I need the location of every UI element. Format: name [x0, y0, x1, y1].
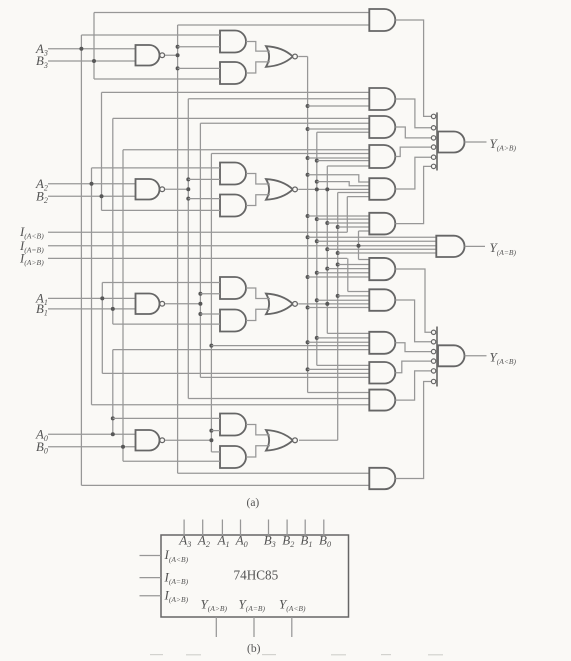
svg-text:I(A>B): I(A>B) [164, 587, 189, 604]
wire AND bit0 lower output to NOR [246, 446, 270, 457]
AND gate bit1 lower [220, 310, 246, 332]
wire B1 to gate G2 [113, 117, 370, 119]
junction A0 branch [111, 416, 115, 420]
wire NOR1 output to gate G7 [298, 303, 369, 305]
wire n3 to top AND gate [178, 24, 370, 26]
AND gate G7 [369, 289, 395, 311]
wire n1 to gate G9 [200, 376, 369, 378]
AND gate bit0 lower [220, 446, 246, 468]
svg-text:Y(A>B): Y(A>B) [490, 136, 517, 153]
wire E2 to gate G2 [317, 131, 370, 133]
wire AND bit2 lower output to NOR [246, 195, 270, 206]
wire E3 to gate G10 [308, 392, 370, 394]
junction E0 to G5 [336, 225, 340, 229]
wire E2 to gate G7 [317, 299, 370, 301]
wire G8 output to Y(A<B) bubble 3 [395, 343, 431, 352]
wire A2 to gate G10 [92, 404, 370, 406]
junction E1 output [325, 302, 329, 306]
74HC85 package outline [161, 535, 349, 617]
AND gate G1 [369, 88, 395, 110]
junction E1 tap on NOR2 output [325, 187, 329, 191]
caption (b) [247, 643, 261, 655]
wire E3 to gate G1 [308, 105, 370, 107]
wire input A2 [48, 183, 136, 185]
Y(A>B) inverting input bubble 4 [431, 145, 435, 149]
junction E3 to G8 [306, 340, 310, 344]
pin label B1 [300, 532, 312, 549]
input bar of Y(A<B) gate [436, 327, 438, 387]
wire AND bit1 upper output to NOR [246, 288, 270, 299]
junction n2 output [186, 187, 190, 191]
pin B3 stub [268, 520, 270, 536]
label cascade input I(A>B) [19, 251, 44, 267]
NAND gate bit1 [136, 294, 165, 315]
label cascade input I(A=B) [19, 239, 44, 255]
Y(A>B) inverting input bubble 2 [431, 126, 435, 130]
wire vertical net I(A=B) [358, 231, 360, 260]
wire A0 to bit0 upper AND [113, 417, 220, 419]
junction n1 [198, 312, 202, 316]
NOR gate bit0 (equality) [266, 430, 297, 451]
wire E3 to gate G9 [308, 368, 370, 370]
pin I(A=B) stub [140, 577, 162, 579]
wire vertical net NAND3 output (n3) [177, 25, 179, 473]
label input B0 [36, 440, 48, 456]
junction E2 to A=B gate [315, 239, 319, 243]
wire input B3 [48, 60, 136, 62]
pin I(A<B) stub [140, 555, 162, 557]
wire vertical net B2 [101, 92, 103, 210]
wire E1 to gate G6 [327, 268, 369, 270]
label input B3 [36, 54, 48, 70]
AND gate G6 [369, 258, 395, 280]
junction E3 to G7 [306, 306, 310, 310]
wire E2 to gate G8 [317, 337, 370, 339]
label input A3 [35, 42, 48, 58]
NOR gate bit1 (equality) [266, 294, 297, 315]
pin B1 stub [304, 520, 306, 536]
pin Y(A=B) stub [253, 617, 255, 637]
wire AND bit0 upper output to NOR [246, 425, 270, 435]
wire E3 to A=B output gate [308, 236, 436, 238]
junction E2 to G6 [315, 271, 319, 275]
wire I(A<B) to gate G4 [347, 196, 369, 198]
NAND gate bit2 [136, 179, 165, 200]
label input A2 [35, 177, 48, 193]
AND gate G8 [369, 332, 395, 354]
wire NOR3 output [298, 56, 307, 58]
junction E3 to A=B gate [306, 235, 310, 239]
AND gate bit1 upper [220, 277, 246, 299]
svg-text:Y(A=B): Y(A=B) [490, 240, 517, 257]
wire A0 to gate G8 [113, 349, 370, 351]
label cascade input I(A<B) [19, 225, 44, 241]
AND gate G4 [369, 178, 395, 200]
wire vertical net A1 [101, 283, 103, 374]
label 74HC85 [234, 568, 279, 583]
NAND gate bit3 [136, 45, 165, 66]
pin label B0 [319, 532, 331, 549]
wire AND bit3 lower output to NOR [246, 62, 270, 73]
wire E2 to gate G9 [317, 364, 370, 366]
wire G3 output to Y(A>B) bubble 4 [395, 147, 431, 156]
svg-text:I(A=B): I(A=B) [164, 569, 189, 586]
wire E2 to gate G3 [317, 160, 370, 162]
pin label B2 [282, 532, 294, 549]
wire B3 to bit3 lower AND [94, 78, 220, 80]
label Y(A=B) [490, 240, 517, 257]
wire Y(A>B) output [465, 141, 487, 143]
wire E3 to gate G5 [308, 215, 370, 217]
junction E3 to G1 [306, 104, 310, 108]
wire bottom AND output to Y(A<B) bubble 6 [395, 382, 431, 479]
pin label Y(A<B) [279, 597, 306, 614]
svg-text:I(A<B): I(A<B) [164, 547, 189, 564]
wire vertical net B3 [93, 13, 95, 80]
svg-text:Y(A<B): Y(A<B) [490, 349, 517, 366]
wire G5 output to Y(A>B) bubble 6 [395, 166, 431, 223]
label input B2 [36, 190, 48, 206]
junction E0 to G6 [336, 263, 340, 267]
Y(A<B) inverting input bubble 6 [431, 379, 435, 383]
junction n2 [186, 197, 190, 201]
wire top AND output to Y(A>B) bubble 1 [395, 20, 431, 116]
junction n3 [176, 45, 180, 49]
wire E1 to gate G8 [327, 332, 369, 334]
wire E3 to gate G2 [308, 128, 370, 130]
wire n3 to bit3 lower AND [178, 67, 220, 69]
wire n2 to gate G10 [188, 398, 369, 400]
wire NOR2 output to gate G4 [298, 188, 369, 190]
junction B1 [111, 307, 115, 311]
pin label I(A>B) [164, 587, 189, 604]
wire E3 to gate G7 [308, 307, 370, 309]
pin label A3 [178, 532, 191, 549]
NAND gate bit0 [136, 430, 165, 451]
wire NAND1 output [165, 303, 201, 305]
output AND gate Y(A<B) [438, 345, 465, 366]
wire input B1 [48, 308, 136, 310]
pin label A0 [235, 532, 248, 549]
wire NOR0 output [299, 439, 338, 441]
junction n1 output [198, 302, 202, 306]
junction n0 [209, 344, 213, 348]
wire n1 to gate G2 [200, 122, 369, 124]
label Y(A>B) [490, 136, 517, 153]
junction E0 to G7 [336, 294, 340, 298]
wire input A3 [48, 48, 136, 50]
wire n0 to bit0 upper AND [211, 430, 220, 432]
label input A0 [35, 427, 48, 443]
pin label I(A=B) [164, 569, 189, 586]
label Y(A<B) [490, 349, 517, 366]
wire n1 to bit1 lower AND [200, 313, 220, 315]
junction E3 to G2 [306, 127, 310, 131]
wire vertical net A0 [112, 350, 114, 435]
wire n3 to bottom AND gate [178, 472, 370, 474]
svg-text:(b): (b) [247, 643, 261, 655]
wire n0 to gate G8 [211, 345, 369, 347]
pin label I(A<B) [164, 547, 189, 564]
output AND gate Y(A>B) [438, 132, 465, 153]
wire n2 to gate G1 [188, 98, 369, 100]
svg-text:74HC85: 74HC85 [234, 568, 279, 583]
Y(A<B) inverting input bubble 3 [431, 349, 435, 353]
junction E2 to G4 [315, 180, 319, 184]
Y(A<B) inverting input bubble 4 [431, 359, 435, 363]
AND gate G3 [369, 145, 395, 168]
junction E3 to G6 [306, 275, 310, 279]
wire input B0 [48, 446, 136, 448]
pin A3 stub [183, 520, 185, 536]
wire E2 to gate G4 [317, 182, 374, 186]
junction n2 [186, 177, 190, 181]
junction n3 [176, 66, 180, 70]
wire B2 to gate G1 [102, 91, 370, 93]
junction E2 to G8 [315, 336, 319, 340]
wire E1 to gate G5 [327, 222, 369, 224]
output AND gate Y(A=B) [436, 236, 464, 257]
pin Y(A<B) stub [291, 617, 293, 637]
pin B0 stub [323, 520, 325, 536]
junction A3 [79, 47, 83, 51]
pin A2 stub [202, 520, 204, 536]
Y(A<B) inverting input bubble 1 [431, 330, 435, 334]
wire n2 to bit2 lower AND [188, 198, 220, 200]
AND gate G5 [369, 213, 395, 235]
pin Y(A>B) stub [215, 617, 217, 637]
junction A1 [100, 296, 104, 300]
wire vertical net A3 [80, 35, 82, 485]
wire n3 to bit3 upper AND [178, 46, 220, 48]
AND gate G2 [369, 116, 395, 138]
caption (a) [247, 497, 260, 509]
junction E3 to G3 [306, 156, 310, 160]
pin A0 stub [240, 520, 242, 536]
NOR gate bit2 (equality) [266, 179, 297, 200]
svg-text:Y(A<B): Y(A<B) [279, 597, 306, 614]
wire cascade I(A<B) [48, 231, 347, 233]
wire vertical net E2 equality [316, 132, 318, 365]
wire n0 to bit0 lower AND [211, 451, 220, 453]
pin B2 stub [286, 520, 288, 536]
wire n1 to bit1 upper AND [200, 293, 220, 295]
Y(A<B) inverting input bubble 2 [431, 340, 435, 344]
junction E1 to G5 [325, 221, 329, 225]
Y(A>B) inverting input bubble 6 [431, 164, 435, 168]
AND gate bit0 upper [220, 414, 246, 436]
wire I(A>B) to gate G7 [348, 291, 370, 293]
pin label Y(A=B) [239, 597, 266, 614]
junction I(A=B) [357, 244, 361, 248]
wire E0 to gate G4 [338, 192, 370, 194]
wire n2 to bit2 upper AND [188, 178, 220, 180]
wire input A1 [48, 297, 136, 299]
wire G10 output to Y(A<B) bubble 5 [395, 371, 431, 400]
pin A1 stub [221, 520, 223, 536]
wire vertical net E3 equality [307, 57, 309, 393]
junction E0 to A=B gate [336, 251, 340, 255]
wire E3 to gate G4 [308, 175, 374, 182]
junction E3 to G5 [306, 214, 310, 218]
AND gate G9 [369, 362, 395, 384]
junction E3 to G4 [306, 173, 310, 177]
wire vertical net B0 [122, 150, 124, 462]
wire B0 to bit0 lower AND [123, 460, 220, 462]
junction E2 output [315, 187, 319, 191]
wire B3 to top AND gate [94, 12, 369, 14]
AND gate bit3 lower [220, 62, 246, 84]
Y(A<B) inverting input bubble 5 [431, 369, 435, 373]
junction n0 [209, 429, 213, 433]
wire E0 to gate G5 [338, 226, 370, 228]
wire NAND0 output [165, 439, 212, 441]
junction E2 to G5 [315, 217, 319, 221]
pin label A2 [197, 532, 210, 549]
faint scan artifact marks at bottom edge [150, 654, 443, 656]
input bar of Y(A>B) gate [436, 112, 438, 170]
Y(A>B) inverting input bubble 1 [431, 114, 435, 118]
wire vertical net I(A>B) [347, 258, 349, 291]
wire A1 to gate G9 [102, 372, 369, 374]
wire G1 output to Y(A>B) bubble 2 [395, 99, 431, 128]
wire E3 to gate G6 [308, 276, 370, 278]
AND gate bit2 upper [220, 163, 246, 185]
wire AND bit3 upper output to NOR [246, 42, 270, 52]
wire n0 to gate G3 [211, 153, 369, 155]
junction B3 [92, 59, 96, 63]
label input A1 [35, 292, 48, 308]
AND gate G10 [369, 390, 395, 411]
junction A2 [90, 182, 94, 186]
wire input B2 [48, 195, 136, 197]
Y(A>B) inverting input bubble 5 [431, 155, 435, 159]
wire E2 to gate G5 [317, 218, 370, 220]
wire NAND2 output [165, 188, 188, 190]
wire NAND3 output [165, 54, 178, 56]
label input B1 [36, 302, 48, 318]
pin label A1 [217, 532, 230, 549]
junction n1 [198, 292, 202, 296]
bottom AND gate (A3·B3') [369, 468, 395, 489]
wire A3 to bottom AND gate [81, 484, 369, 486]
wire B1 to bit1 lower AND [113, 323, 220, 325]
junction n0 output [209, 438, 213, 442]
junction E1 to G6 [325, 267, 329, 271]
wire E1 to A=B output gate [327, 248, 436, 250]
wire B2 to bit2 lower AND [102, 209, 221, 211]
wire A3 to bit3 upper AND [81, 34, 220, 36]
wire vertical net E1 equality [326, 166, 328, 333]
wire A2 to bit2 upper AND [92, 167, 221, 169]
wire I(A=B) to gate G5 [359, 230, 370, 232]
junction B0 [121, 445, 125, 449]
wire vertical net B1 [112, 118, 114, 324]
junction n3 output [176, 53, 180, 57]
svg-text:Y(A=B): Y(A=B) [239, 597, 266, 614]
junction A0 [111, 432, 115, 436]
wire E0 to A=B output gate [338, 252, 436, 254]
wire G4 output to Y(A>B) bubble 5 [395, 157, 431, 189]
wire E1 to gate G3 [327, 165, 369, 167]
wire input A0 [48, 433, 136, 435]
wire vertical net A2 [91, 168, 93, 405]
pin label B3 [264, 532, 276, 549]
wire cascade I(A=B) to A=B output gate [48, 245, 436, 247]
wire AND bit1 lower output to NOR [246, 309, 270, 320]
wire cascade I(A>B) [48, 257, 347, 259]
junction E1 to A=B gate [325, 247, 329, 251]
junction B2 [100, 194, 104, 198]
wire G2 output to Y(A>B) bubble 3 [395, 127, 431, 138]
wire AND bit2 upper output to NOR [246, 174, 270, 185]
Y(A>B) inverting input bubble 3 [431, 136, 435, 140]
wire G9 output to Y(A<B) bubble 4 [395, 361, 431, 373]
wire B0 to gate G3 [123, 149, 369, 151]
top AND gate (B3·A3') [369, 9, 395, 31]
svg-text:Y(A>B): Y(A>B) [201, 597, 228, 614]
junction E2 to G7 [315, 298, 319, 302]
wire I(A=B) to gate G6 [359, 259, 370, 261]
svg-text:(a): (a) [247, 497, 260, 509]
wire G6 output to Y(A<B) bubble 1 [395, 269, 431, 332]
wire vertical net I(A<B) [346, 197, 348, 233]
wire A1 to bit1 upper AND [102, 282, 220, 284]
wire vertical net NAND0 output (n0) [210, 154, 212, 452]
wire G7 output to Y(A<B) bubble 2 [395, 300, 431, 342]
wire E3 to gate G8 [308, 341, 370, 343]
wire vertical net NAND2 output (n2) [187, 99, 189, 399]
junction E2 to G3 [315, 159, 319, 163]
wire Y(A=B) output [465, 245, 486, 247]
wire E3 to gate G3 [308, 157, 370, 159]
junction E3 to G9 [306, 367, 310, 371]
wire E0 to gate G7 [338, 295, 370, 297]
wire E0 to gate G6 [338, 264, 370, 266]
wire Y(A<B) output [465, 355, 487, 357]
wire E2 to gate G6 [317, 272, 370, 274]
pin label Y(A>B) [201, 597, 228, 614]
wire vertical net NAND1 output (n1) [199, 123, 201, 377]
wire E2 to A=B output gate [317, 240, 436, 242]
AND gate bit2 lower [220, 195, 246, 217]
pin I(A>B) stub [140, 595, 162, 597]
AND gate bit3 upper [220, 31, 246, 53]
wire vertical net E0 equality [337, 193, 339, 441]
NOR gate bit3 (equality) [266, 46, 297, 67]
